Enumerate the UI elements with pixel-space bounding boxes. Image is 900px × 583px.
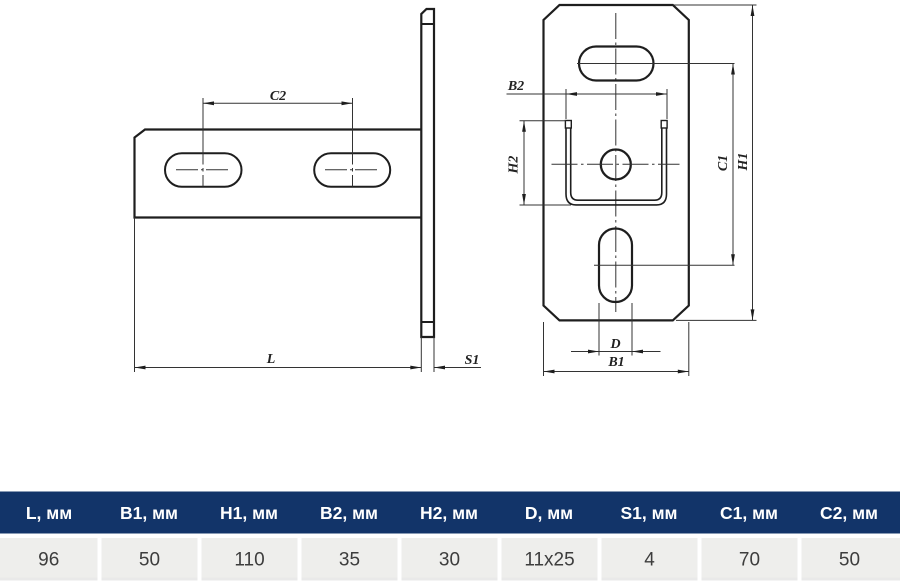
arrow H1 top	[751, 5, 755, 16]
slot 2 centerlines	[325, 169, 380, 171]
arrow B1 left	[544, 370, 555, 374]
arrow H2 bottom	[522, 194, 526, 205]
U channel left lip	[565, 121, 571, 129]
right view: plate vertical centerline	[615, 13, 617, 312]
flange top fold line	[421, 23, 434, 25]
svg-text:B1: B1	[607, 355, 624, 370]
arrow L left	[135, 366, 146, 370]
svg-text:50: 50	[839, 550, 860, 571]
U channel outer profile	[566, 128, 667, 205]
bottom slot	[599, 229, 632, 303]
svg-text:50: 50	[139, 550, 160, 571]
right view: top slot	[579, 47, 654, 81]
dimension B1 line	[544, 371, 689, 373]
svg-text:S1: S1	[465, 353, 480, 368]
right view: plate outline	[544, 5, 689, 320]
slot 1 centerlines	[176, 169, 231, 171]
dimension C2 extension lines	[203, 98, 353, 187]
arrow C1 bottom	[731, 254, 735, 265]
arrow B2 left	[566, 92, 577, 96]
svg-text:4: 4	[644, 550, 655, 571]
arrow S1	[434, 366, 445, 370]
dimension L extension lines	[135, 218, 422, 373]
left view: arm plate outline	[135, 130, 422, 218]
arrow B2 right	[656, 92, 667, 96]
dimension D extension lines	[599, 303, 632, 356]
arrow C2 right	[342, 101, 353, 105]
dimension L line	[135, 367, 422, 369]
flange bottom fold line	[421, 321, 434, 323]
svg-text:H2: H2	[507, 156, 522, 175]
dimension H1 extension lines	[674, 5, 757, 320]
svg-text:L, мм: L, мм	[26, 503, 72, 523]
svg-text:H1: H1	[736, 153, 751, 172]
circle horizontal centerline	[552, 163, 680, 165]
svg-text:S1, мм: S1, мм	[620, 503, 677, 523]
arrow L right	[410, 366, 421, 370]
svg-text:H2, мм: H2, мм	[420, 503, 478, 523]
svg-text:B2: B2	[507, 79, 524, 94]
arrow C2 left	[203, 101, 214, 105]
left view: slot 1	[165, 153, 242, 187]
U channel inner profile	[571, 128, 662, 200]
svg-text:L: L	[266, 352, 276, 367]
arrow D left	[588, 350, 599, 354]
U channel right lip	[661, 121, 667, 129]
circle hole	[601, 150, 631, 180]
svg-text:B1, мм: B1, мм	[120, 503, 178, 523]
svg-text:70: 70	[739, 550, 760, 571]
svg-text:C2, мм: C2, мм	[820, 503, 878, 523]
dimension C2 line	[203, 102, 353, 104]
svg-text:96: 96	[38, 550, 59, 571]
arrow B1 right	[678, 370, 689, 374]
arrow C1 top	[731, 64, 735, 75]
dimension B1 extension lines	[544, 322, 689, 376]
arrow D right	[632, 350, 643, 354]
svg-text:C2: C2	[270, 89, 286, 104]
svg-text:110: 110	[234, 550, 264, 571]
left view: slot 2	[314, 153, 390, 187]
dimension C1 line	[732, 64, 734, 266]
top slot centerline / C1 extension	[577, 63, 735, 65]
data row lower strip	[0, 578, 900, 581]
svg-text:D: D	[609, 337, 620, 352]
arrow H1 bottom	[751, 309, 755, 320]
arrow H2 top	[522, 121, 526, 132]
dimension H2 extension lines	[520, 121, 572, 205]
dimension B2 extension lines	[566, 89, 667, 119]
svg-text:11x25: 11x25	[524, 550, 574, 571]
table header bar	[0, 492, 900, 534]
svg-text:B2, мм: B2, мм	[320, 503, 378, 523]
svg-text:30: 30	[439, 550, 460, 571]
bottom slot centerline / C1 extension	[594, 264, 735, 266]
left view: vertical flange plate	[421, 9, 434, 337]
dimension S1 line	[434, 367, 481, 369]
dimension D line	[571, 351, 661, 353]
dimension B2 line	[507, 93, 668, 95]
svg-text:35: 35	[339, 550, 360, 571]
data row cells	[0, 538, 900, 578]
dimension H1 line	[752, 5, 754, 320]
svg-text:D, мм: D, мм	[525, 503, 573, 523]
svg-text:H1, мм: H1, мм	[220, 503, 278, 523]
svg-text:C1, мм: C1, мм	[720, 503, 778, 523]
svg-text:C1: C1	[716, 155, 731, 171]
dimension H2 line	[523, 121, 525, 205]
dimension S1 extension line	[433, 337, 435, 372]
